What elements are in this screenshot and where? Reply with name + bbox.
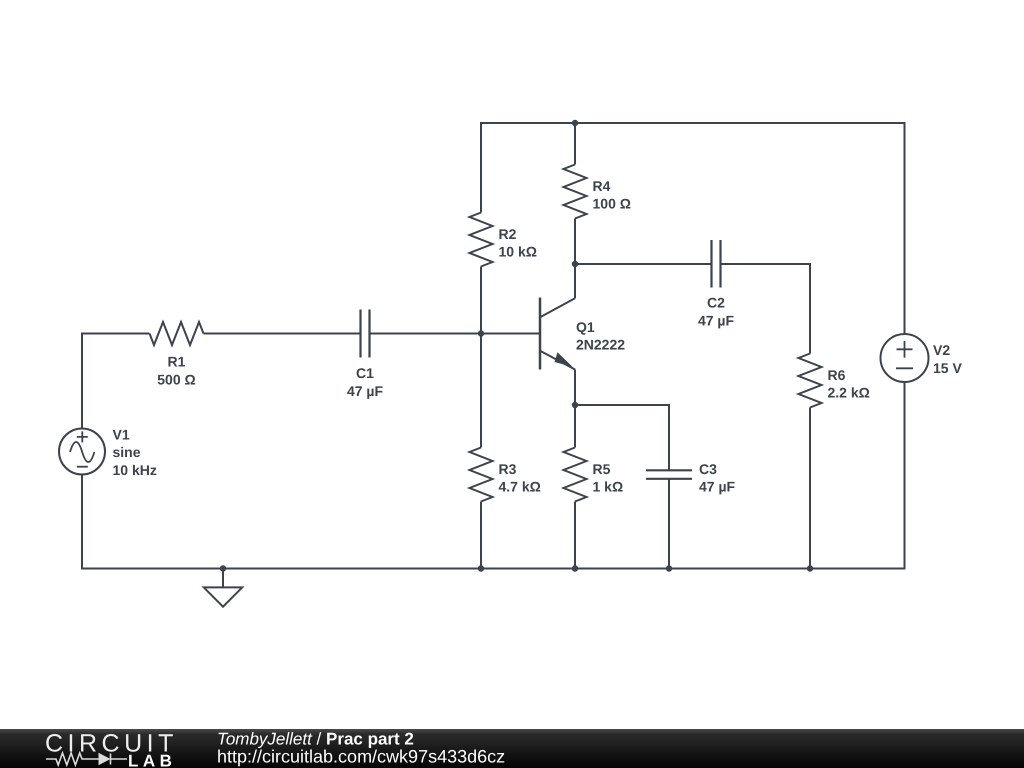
svg-text:C2: C2: [707, 295, 725, 311]
wire C1 to Q1 base: [370, 333, 540, 335]
capacitor C3: [646, 470, 692, 479]
emitter arrow: [555, 352, 573, 367]
svg-text:500 Ω: 500 Ω: [157, 372, 195, 388]
node dot emitter: [572, 402, 578, 408]
svg-text:R4: R4: [593, 178, 611, 194]
svg-text:C3: C3: [699, 461, 717, 477]
svg-text:http://circuitlab.com/cwk97s43: http://circuitlab.com/cwk97s433d6cz: [217, 747, 505, 767]
node dot R5 bottom: [572, 565, 578, 571]
logo resistor-diode glyph: [46, 753, 127, 765]
svg-text:R1: R1: [168, 354, 186, 370]
node dot C3 bottom: [666, 565, 672, 571]
wire R5 bottom: [574, 502, 576, 569]
wire R3 top: [480, 334, 482, 448]
svg-text:V2: V2: [933, 342, 950, 358]
svg-text:C1: C1: [356, 365, 374, 381]
resistor R6: [799, 354, 822, 408]
svg-text:47 µF: 47 µF: [347, 383, 384, 399]
node dot top rail: [572, 120, 578, 126]
wire R2 branch top: [481, 123, 905, 334]
svg-text:1 kΩ: 1 kΩ: [593, 479, 624, 495]
svg-text:2.2 kΩ: 2.2 kΩ: [828, 385, 870, 401]
svg-text:2N2222: 2N2222: [576, 337, 625, 353]
node dot R3 bottom: [478, 565, 484, 571]
svg-text:LAB: LAB: [128, 752, 176, 768]
wire output to C2: [575, 263, 711, 265]
svg-text:100 Ω: 100 Ω: [593, 196, 631, 212]
transistor Q1: [539, 298, 542, 370]
resistor R4: [564, 165, 587, 219]
svg-text:V1: V1: [113, 427, 130, 443]
wire R4 top: [574, 123, 576, 165]
svg-text:15 V: 15 V: [933, 360, 962, 376]
wire V1 bottom lead: [82, 382, 905, 569]
resistor R1: [150, 322, 204, 345]
wire emitter node to R5: [574, 405, 576, 448]
svg-text:R5: R5: [593, 461, 611, 477]
wire R3 bottom: [480, 502, 482, 569]
svg-text:10 kHz: 10 kHz: [113, 462, 157, 478]
node dot base: [478, 330, 484, 336]
svg-text:R3: R3: [499, 461, 517, 477]
node dot R6 bottom: [807, 565, 813, 571]
svg-text:47 µF: 47 µF: [698, 313, 735, 329]
wire C3 bottom lead: [668, 479, 670, 569]
source V1: [59, 429, 105, 475]
svg-text:47 µF: 47 µF: [699, 479, 736, 495]
capacitor C2: [712, 240, 721, 288]
wire R2 bottom: [480, 267, 482, 334]
node dot collector: [572, 261, 578, 267]
wire R4 bottom to collector node: [574, 219, 576, 265]
resistor R2: [470, 213, 493, 267]
svg-text:sine: sine: [113, 444, 141, 460]
wire R6 bottom: [809, 408, 811, 569]
svg-text:Q1: Q1: [576, 319, 595, 335]
wire input left segment: [82, 334, 150, 429]
ground: [222, 569, 224, 588]
node dot ground: [220, 565, 226, 571]
svg-text:4.7 kΩ: 4.7 kΩ: [499, 479, 541, 495]
svg-text:R2: R2: [499, 226, 517, 242]
wire R1 to C1: [204, 333, 361, 335]
svg-text:R6: R6: [828, 367, 846, 383]
capacitor C1: [361, 310, 370, 358]
source V2: [881, 334, 929, 382]
svg-text:10 kΩ: 10 kΩ: [499, 244, 537, 260]
resistor R3: [470, 448, 493, 502]
wire collector lead: [574, 264, 576, 298]
wire emitter to C3: [575, 405, 669, 470]
wire C2 to R6 corner: [721, 264, 811, 354]
resistor R5: [564, 448, 587, 502]
